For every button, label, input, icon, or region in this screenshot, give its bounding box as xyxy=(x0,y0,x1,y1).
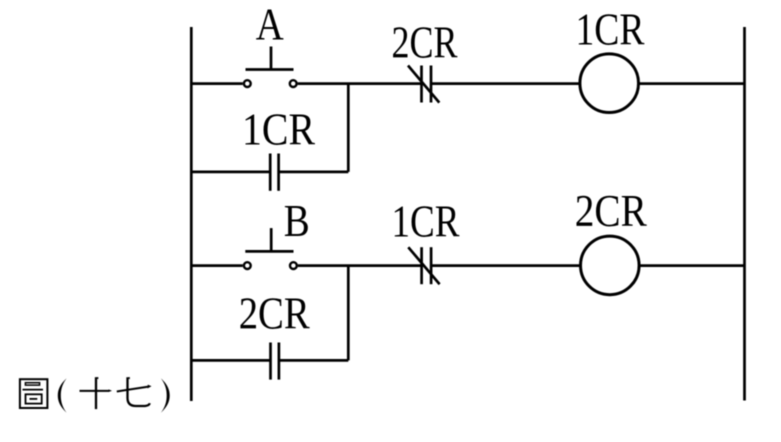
contact 2CR NC bars xyxy=(408,66,439,103)
paren open xyxy=(58,378,67,413)
wire rung1 left xyxy=(191,82,243,85)
left rail xyxy=(190,27,193,401)
paren close xyxy=(161,378,170,413)
glyph 圖 xyxy=(20,379,48,408)
branch1 wire right xyxy=(279,171,349,174)
contact 2CR NO bars xyxy=(271,343,279,380)
coil 1CR xyxy=(580,54,639,113)
branch2 junction vertical xyxy=(347,266,350,361)
svg-text:1CR: 1CR xyxy=(576,5,645,55)
pushbutton B xyxy=(244,228,297,269)
glyph 十 xyxy=(80,377,113,409)
svg-text:1CR: 1CR xyxy=(242,105,315,155)
coil 2CR xyxy=(581,236,640,295)
svg-text:1CR: 1CR xyxy=(392,197,460,247)
wire rung2 right xyxy=(431,264,580,267)
svg-text:A: A xyxy=(256,0,284,49)
branch1 junction vertical xyxy=(347,84,350,172)
glyph 七 xyxy=(117,377,152,406)
caption 圖(十七) xyxy=(20,377,170,413)
svg-text:2CR: 2CR xyxy=(392,18,458,68)
svg-text:B: B xyxy=(284,196,310,246)
branch2 wire right xyxy=(279,359,348,362)
wire rung1 mid xyxy=(298,82,422,85)
branch2 wire left xyxy=(191,359,270,362)
wire coil2 to rail xyxy=(639,264,744,267)
svg-text:2CR: 2CR xyxy=(575,186,647,236)
contact 1CR NO bars xyxy=(270,154,278,191)
pushbutton A xyxy=(244,47,297,88)
wire rung2 left xyxy=(191,264,243,267)
branch1 wire left xyxy=(191,171,270,174)
wire rung2 mid xyxy=(298,264,422,267)
wire coil1 to rail xyxy=(638,82,744,85)
wire rung1 right xyxy=(431,82,580,85)
svg-text:2CR: 2CR xyxy=(239,288,310,338)
contact 1CR NC bars xyxy=(408,247,439,284)
right rail xyxy=(743,27,746,401)
